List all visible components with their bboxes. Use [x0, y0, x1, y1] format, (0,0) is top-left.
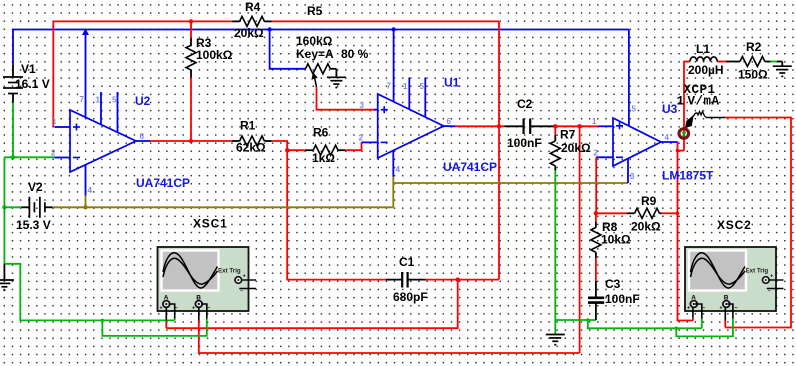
label U2 part: [136, 176, 190, 190]
label C3 value: [605, 292, 640, 306]
ground V2 net: [0, 264, 14, 290]
op-amp U3: [596, 118, 677, 183]
label U1 part: [443, 160, 497, 174]
wire green R7 bottom to ground net: [554, 171, 556, 334]
wire blue to potentiometer R5 left: [270, 30, 306, 69]
ground R2 net: [773, 62, 792, 77]
wire XSC2 A+ lead black: [692, 308, 694, 321]
label R2: [746, 40, 762, 54]
svg-text:200µH: 200µH: [688, 63, 724, 77]
svg-text:C2: C2: [517, 97, 533, 111]
svg-text:3: 3: [360, 101, 365, 110]
wire blue U2 pin7 supply tap: [85, 30, 87, 119]
wire red pot wiper to U1 pin3: [317, 87, 375, 110]
wire green V1 minus to U2 pin2: [4, 103, 54, 266]
svg-text:Ext Trig: Ext Trig: [746, 268, 769, 275]
node green junction XSC1: [101, 319, 105, 323]
capacitor C1: [386, 272, 426, 288]
svg-text:1: 1: [403, 82, 408, 91]
wire red C2 right to U3 pin1: [553, 126, 598, 135]
svg-text:2: 2: [51, 149, 56, 158]
label C2: [517, 97, 533, 111]
svg-text:3: 3: [630, 172, 635, 181]
svg-text:R2: R2: [746, 40, 762, 54]
svg-text:1: 1: [592, 117, 597, 126]
wire green C3 bottom net: [555, 319, 596, 321]
svg-text:Ext Trig: Ext Trig: [218, 268, 241, 275]
ground C3 net: [546, 335, 565, 345]
wire green XSC1 B- net: [102, 320, 206, 336]
svg-text:U1: U1: [444, 76, 460, 90]
wire red XSC1 A+ lead: [165, 321, 167, 329]
wire XSC1 A- lead black: [169, 304, 175, 320]
oscilloscope XSC2: [685, 247, 784, 312]
svg-text:LM1875T: LM1875T: [662, 169, 714, 183]
svg-text:10kΩ: 10kΩ: [601, 233, 631, 247]
wire red top net R4/R3: [53, 21, 499, 127]
label U1: [444, 76, 460, 90]
label U3: [662, 102, 678, 116]
svg-text:150Ω: 150Ω: [738, 68, 768, 82]
svg-text:5: 5: [632, 105, 637, 114]
label R4: [245, 0, 261, 14]
label R7 value: [561, 141, 591, 155]
svg-text:+: +: [160, 306, 163, 312]
pin labels U1: [359, 82, 452, 175]
svg-text:R5: R5: [307, 4, 323, 18]
label V2 value: [16, 218, 51, 232]
wire red junction down to C1 left: [287, 150, 386, 279]
label XCP1 unit: [688, 95, 720, 109]
label V1 value: [15, 77, 50, 91]
label C1: [399, 255, 415, 269]
wire XSC2 B- lead black: [728, 304, 733, 321]
label R6: [313, 126, 329, 140]
svg-text:U3: U3: [662, 102, 678, 116]
label R1: [240, 119, 256, 133]
label R9 value: [631, 220, 661, 234]
svg-text:16.1 V: 16.1 V: [15, 77, 50, 91]
label R4 value: [234, 26, 264, 40]
wire red U3 pin2 down to R8/R9 node: [595, 157, 597, 213]
label C1 value: [393, 290, 428, 304]
wire red C1 right junction: [426, 279, 500, 281]
op-amp U2: [55, 92, 151, 196]
pin labels U2: [51, 95, 145, 195]
svg-text:20kΩ: 20kΩ: [234, 26, 264, 40]
wire green XSC2 A- lead: [701, 321, 703, 329]
wire red R8 top lead: [595, 213, 597, 222]
svg-text:+: +: [720, 306, 723, 312]
svg-text:+: +: [770, 274, 773, 280]
wire red R9 right to U3 output vertical: [662, 212, 678, 214]
svg-text:Key=A: Key=A: [296, 47, 334, 61]
wire red jog to XCP1 vertical: [678, 150, 685, 152]
wire green XSC2 B- net: [676, 321, 733, 337]
wire red R1 to junction to R6: [272, 141, 306, 150]
svg-text:5: 5: [420, 82, 425, 91]
wire red vertical x=499 down to C1 net: [498, 21, 500, 279]
svg-text:V1: V1: [21, 62, 36, 76]
svg-text:4: 4: [88, 186, 93, 195]
svg-text:4: 4: [665, 133, 670, 142]
label V1: [21, 62, 36, 76]
wire XSC1 B- lead black: [201, 304, 207, 320]
label R3: [196, 36, 212, 50]
svg-text:100nF: 100nF: [507, 136, 542, 150]
svg-text:+: +: [243, 274, 246, 280]
svg-text:R7: R7: [560, 128, 576, 142]
capacitor C2: [504, 119, 553, 135]
label C2 value: [507, 136, 542, 150]
resistor R9: [627, 208, 662, 218]
label R9: [641, 194, 657, 208]
label R5 key: [296, 47, 369, 61]
svg-text:+: +: [192, 306, 195, 312]
wire green to XSC2 A-: [588, 320, 702, 328]
label XSC2: [717, 218, 752, 232]
svg-text:62kΩ: 62kΩ: [236, 141, 266, 155]
svg-text:V2: V2: [28, 180, 43, 194]
resistor R1: [232, 136, 272, 146]
battery V2: [21, 197, 52, 218]
wire red R9 left lead: [596, 212, 627, 214]
wire red XSC2 B+ lead: [724, 321, 726, 328]
label R8 value: [601, 233, 631, 247]
svg-text:2: 2: [359, 134, 364, 143]
current probe XCP1: [679, 112, 725, 139]
svg-text:680pF: 680pF: [393, 290, 428, 304]
wire XSC1 A+ lead black: [165, 308, 167, 321]
capacitor C3: [588, 281, 604, 320]
oscilloscope XSC1: [158, 247, 257, 312]
inductor L1: [690, 57, 717, 62]
svg-text:R4: R4: [245, 0, 261, 14]
label L1 value: [688, 63, 724, 77]
svg-text:5: 5: [112, 96, 117, 105]
svg-text:15.3 V: 15.3 V: [16, 218, 51, 232]
wire blue U1 pin7 supply tap: [393, 30, 395, 102]
label XSC1: [193, 217, 228, 231]
wire XSC2 A- lead black: [695, 304, 702, 321]
wire green V2 left lead: [4, 206, 21, 208]
wire red R8 bottom to C3: [595, 258, 597, 281]
svg-text:2: 2: [594, 149, 599, 158]
svg-text:20kΩ: 20kΩ: [631, 220, 661, 234]
svg-text:3: 3: [52, 118, 57, 127]
svg-text:–: –: [768, 289, 771, 295]
wire red U3 output down to XSC2 A+: [678, 142, 693, 321]
svg-text:XSC1: XSC1: [193, 217, 228, 231]
wire olive U1 pin4 tap: [392, 177, 394, 184]
wire XSC2 B+ lead black: [724, 308, 726, 321]
svg-text:XSC2: XSC2: [717, 218, 752, 232]
svg-text:1: 1: [677, 95, 685, 109]
svg-text:100kΩ: 100kΩ: [196, 48, 233, 62]
wire red U2 output to R1: [150, 140, 232, 142]
svg-text:R9: R9: [641, 194, 657, 208]
label XCP1 pin 1: [677, 95, 685, 109]
label C3: [605, 277, 621, 291]
resistor R3: [186, 38, 196, 78]
label R5: [307, 4, 323, 18]
svg-text:R1: R1: [240, 119, 256, 133]
label R6 value: [312, 151, 335, 165]
svg-text:100nF: 100nF: [605, 292, 640, 306]
wire red XSC1 B+ to bottom rail: [199, 321, 580, 354]
label R7: [560, 128, 576, 142]
wire red XCP1 output to XSC2 B+: [725, 118, 791, 328]
wire red R6 to U1 pin2: [345, 142, 361, 150]
wire red R3 top lead: [190, 21, 192, 38]
node green junction XSC2: [675, 327, 679, 331]
node green junction V2: [2, 155, 15, 209]
label U2: [135, 94, 151, 108]
label V2: [28, 180, 43, 194]
label R8: [602, 220, 618, 234]
svg-text:7: 7: [80, 95, 85, 104]
svg-text:–: –: [240, 289, 243, 295]
wire red between L1 and R2: [717, 61, 726, 63]
svg-text:V/mA: V/mA: [688, 95, 720, 109]
wire green R2 to ground: [771, 61, 778, 63]
node green junction C3: [586, 318, 590, 322]
potentiometer R5: [306, 64, 337, 87]
svg-text:UA741CP: UA741CP: [136, 176, 190, 190]
label R2 value: [738, 68, 768, 82]
wire red vertical x=579.6 to C2 net: [579, 126, 581, 353]
wire red R3 bottom to U2 output row: [190, 78, 192, 142]
svg-text:7: 7: [387, 82, 392, 91]
resistor R7: [550, 135, 560, 171]
label R5 value: [296, 34, 333, 48]
wire blue V+ rail from V1 to U3 pin5: [13, 30, 629, 127]
label XCP1: [684, 83, 716, 97]
svg-text:20kΩ: 20kΩ: [561, 141, 591, 155]
svg-text:+: +: [687, 306, 690, 312]
wire red C1 net down to scope A line: [166, 280, 457, 329]
wire XSC1 B+ lead black: [198, 308, 200, 321]
resistor R4: [232, 16, 272, 26]
wire green ground jog to XSC1 A-: [4, 264, 174, 321]
wire red U1 output to C2: [456, 125, 505, 127]
svg-text:80 %: 80 %: [341, 47, 369, 61]
battery V1: [3, 65, 23, 103]
svg-text:160kΩ: 160kΩ: [296, 34, 333, 48]
ground pot R5: [327, 69, 346, 88]
svg-text:UA741CP: UA741CP: [443, 160, 497, 174]
svg-text:R6: R6: [313, 126, 329, 140]
svg-text:1: 1: [96, 96, 101, 105]
svg-text:4: 4: [396, 165, 401, 174]
wire red XCP1 vertical to L1: [684, 62, 690, 151]
svg-text:L1: L1: [696, 42, 710, 56]
label R1 value: [236, 141, 266, 155]
wire olive V2 plus rail to U1 pin4: [53, 183, 628, 207]
resistor R2: [726, 57, 771, 67]
op-amp U1: [362, 77, 456, 176]
label L1: [696, 42, 710, 56]
wire olive U2 pin4 tap: [85, 196, 87, 208]
label R3 value: [196, 48, 233, 62]
svg-text:6: 6: [140, 132, 145, 141]
svg-text:C1: C1: [399, 255, 415, 269]
node olive junction U2 pin4: [83, 205, 87, 209]
svg-text:U2: U2: [135, 94, 151, 108]
label U3 part: [662, 169, 714, 183]
resistor R6: [306, 145, 346, 155]
svg-text:C3: C3: [605, 277, 621, 291]
node blue rail junctions: [82, 27, 396, 35]
svg-text:6: 6: [447, 117, 452, 126]
svg-text:1kΩ: 1kΩ: [312, 151, 335, 165]
node red junctions: [189, 19, 680, 282]
pin labels U3: [592, 105, 670, 182]
resistor R8: [591, 222, 601, 258]
